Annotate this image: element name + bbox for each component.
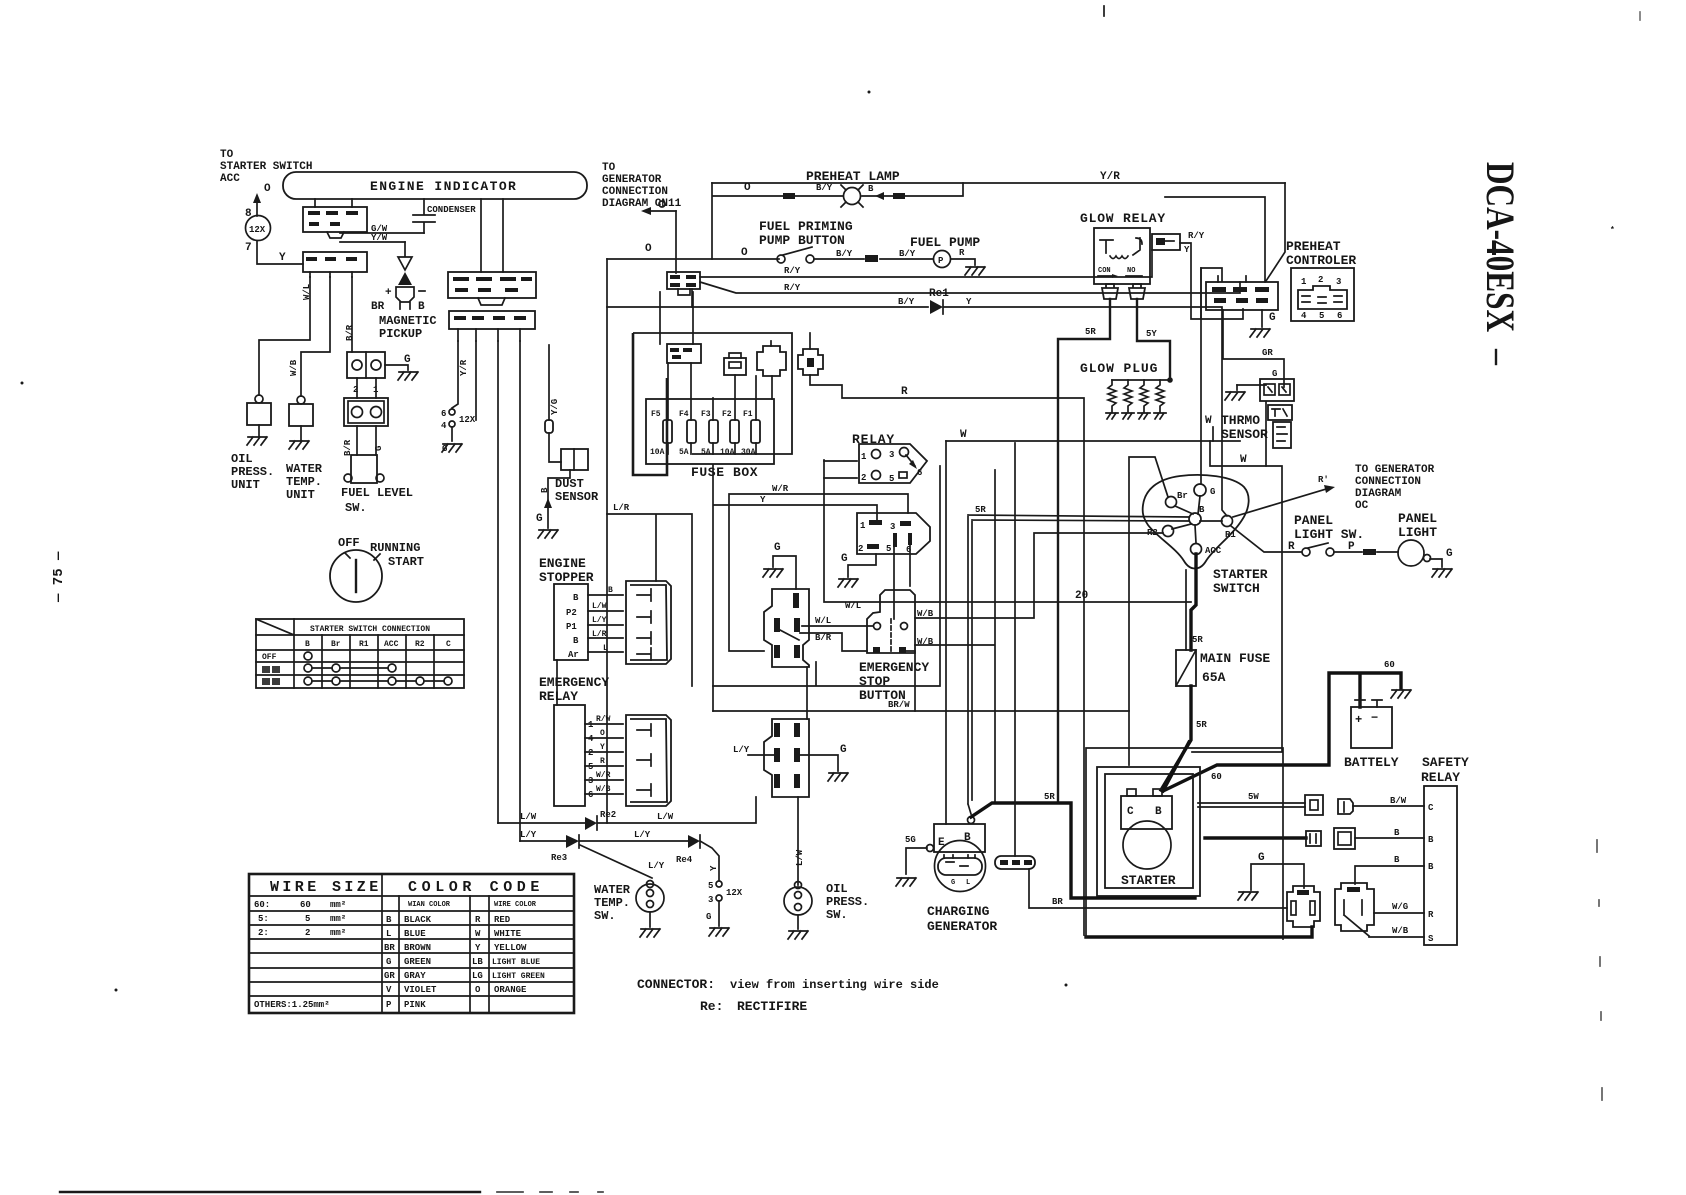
- svg-text:G: G: [1269, 312, 1276, 324]
- preheat controller U2: [1291, 268, 1354, 321]
- svg-text:R: R: [475, 915, 481, 925]
- svg-text:EMERGENCY: EMERGENCY: [539, 675, 609, 690]
- key switch OFF RUNNING START: [330, 536, 424, 602]
- svg-text:CONNECTOR:: CONNECTOR:: [637, 977, 715, 992]
- wires engine indicator to connector C: [481, 199, 503, 272]
- label FUEL LEVEL SW.: [341, 486, 413, 515]
- wire B/W to safety relay C: [1353, 796, 1424, 806]
- svg-text:5: 5: [1319, 311, 1324, 321]
- wire L/R into stopper area: [607, 503, 692, 686]
- wire left bus L/R vertical: [606, 259, 608, 823]
- doc code DCA-40ESX: [1478, 162, 1523, 364]
- wire to generator CN11 (arrow): [641, 201, 676, 273]
- wire long L/W branch: [497, 341, 499, 823]
- svg-text:W: W: [1205, 415, 1212, 427]
- svg-text:L/Y: L/Y: [520, 830, 537, 840]
- svg-text:LIGHT: LIGHT: [1398, 525, 1437, 540]
- svg-text:SWITCH: SWITCH: [1213, 581, 1260, 596]
- ground oil press unit: [247, 425, 267, 445]
- svg-text:LB: LB: [472, 957, 483, 967]
- wire L/Y Re3 Re4 run: [520, 830, 719, 880]
- svg-text:V: V: [386, 985, 392, 995]
- svg-text:P: P: [938, 256, 944, 266]
- svg-text:6: 6: [1337, 311, 1342, 321]
- wire R bus: [810, 375, 1084, 935]
- label FUEL PRIMING PUMP BUTTON: [759, 219, 853, 248]
- svg-text:G: G: [386, 957, 391, 967]
- svg-text:GREEN: GREEN: [404, 957, 431, 967]
- svg-text:BATTELY: BATTELY: [1344, 755, 1399, 770]
- svg-text:B: B: [573, 593, 579, 603]
- wire W right frame: [1192, 441, 1282, 752]
- label OIL PRESS. SW.: [826, 882, 869, 922]
- svg-text:W/B: W/B: [289, 359, 299, 376]
- svg-text:FUEL PUMP: FUEL PUMP: [910, 235, 980, 250]
- svg-text:STARTER SWITCH CONNECTION: STARTER SWITCH CONNECTION: [310, 625, 430, 634]
- wire W/B to water temp unit: [289, 277, 330, 396]
- label RELAY: [852, 432, 895, 447]
- svg-text:mm²: mm²: [330, 900, 346, 910]
- ground fuel level connector: [385, 354, 418, 380]
- svg-text:L/W: L/W: [657, 812, 674, 822]
- svg-text:PICKUP: PICKUP: [379, 327, 422, 341]
- condenser C1: [413, 199, 476, 233]
- glow plug R3: [1138, 380, 1150, 419]
- svg-text:G: G: [1446, 548, 1453, 560]
- label PREHEAT LAMP: [806, 169, 900, 184]
- svg-text:20: 20: [1075, 590, 1088, 602]
- svg-text:ACC: ACC: [220, 173, 240, 185]
- starter switch body: [1143, 475, 1249, 569]
- wire stopper to emergency relay: [556, 660, 558, 705]
- connector 3slot: [995, 443, 1035, 869]
- svg-text:SAFETY: SAFETY: [1422, 755, 1469, 770]
- wire 5W: [1198, 792, 1305, 807]
- svg-text:B: B: [1155, 806, 1162, 818]
- svg-text:5: 5: [708, 881, 713, 891]
- wire W/B: [1369, 926, 1424, 937]
- svg-text:PREHEAT: PREHEAT: [1286, 239, 1341, 254]
- svg-text:L: L: [966, 879, 970, 887]
- wire 5G ground: [896, 845, 934, 887]
- label THRMO SENSOR: [1205, 413, 1268, 442]
- glow plug R2: [1122, 380, 1134, 419]
- svg-text:Y: Y: [279, 252, 286, 264]
- wire P to panel light: [1334, 541, 1398, 555]
- wire 5R from glow relay: [1058, 299, 1110, 803]
- svg-text:R2: R2: [415, 640, 425, 649]
- svg-text:65A: 65A: [1202, 670, 1226, 685]
- svg-text:FUEL LEVEL: FUEL LEVEL: [341, 486, 413, 500]
- connector preheat (multi pin): [1206, 276, 1278, 310]
- svg-text:Re1: Re1: [929, 288, 949, 300]
- svg-text:5R: 5R: [1085, 327, 1096, 337]
- svg-text:5G: 5G: [905, 835, 916, 845]
- wire main fuse to starter 5R: [1161, 686, 1207, 790]
- wire BR: [1029, 869, 1287, 908]
- svg-text:Y: Y: [966, 297, 972, 307]
- svg-text:SW.: SW.: [345, 501, 367, 515]
- svg-text:60: 60: [1211, 772, 1222, 782]
- svg-text:G: G: [1210, 487, 1215, 497]
- battery wire 60 loop: [1163, 660, 1401, 791]
- svg-text:2:: 2:: [258, 928, 269, 938]
- svg-text:RECTIFIRE: RECTIFIRE: [737, 999, 807, 1014]
- wire main O bus: [607, 247, 779, 259]
- svg-text:W/L: W/L: [815, 616, 831, 626]
- fuel priming pump button S1: [777, 247, 814, 263]
- svg-text:OIL: OIL: [826, 882, 848, 896]
- svg-text:3: 3: [889, 450, 894, 460]
- svg-text:WHITE: WHITE: [494, 929, 522, 939]
- wire long L/Y branch: [519, 341, 521, 841]
- wire B to safety relay B: [1355, 828, 1424, 838]
- starter switch terminal R2: [1147, 526, 1174, 539]
- svg-text:B: B: [1199, 505, 1205, 515]
- page number 75: [51, 551, 67, 603]
- svg-text:2: 2: [588, 748, 593, 758]
- svg-text:LIGHT GREEN: LIGHT GREEN: [492, 972, 545, 981]
- svg-text:START: START: [388, 555, 424, 569]
- ground engine stopper top: [476, 341, 570, 538]
- svg-text:EMERGENCY: EMERGENCY: [859, 660, 929, 675]
- svg-text:1: 1: [861, 452, 867, 462]
- wire Y/W: [340, 233, 405, 243]
- wires fuel level to float: [343, 378, 384, 456]
- wire connector stack: [806, 667, 808, 719]
- svg-text:Y: Y: [1184, 245, 1190, 255]
- svg-text:OFF: OFF: [338, 536, 360, 550]
- svg-text:2: 2: [305, 928, 310, 938]
- svg-text:R/Y: R/Y: [784, 283, 801, 293]
- svg-text:R: R: [959, 248, 965, 258]
- connector B (engine indicator lower plug): [303, 252, 367, 277]
- wire W/L pair into B: [968, 505, 1189, 814]
- label FUSE BOX: [691, 465, 758, 480]
- svg-text:Y: Y: [760, 495, 766, 505]
- wire W/G: [1374, 902, 1424, 913]
- svg-text:G: G: [374, 446, 384, 451]
- svg-text:5: 5: [305, 914, 310, 924]
- svg-text:O: O: [600, 729, 605, 738]
- engine stopper connector: [626, 581, 671, 664]
- wires engine stopper: [588, 586, 623, 653]
- wires emergency relay: [585, 715, 623, 794]
- svg-text:L/R: L/R: [613, 503, 630, 513]
- svg-text:W/B: W/B: [917, 609, 934, 619]
- wire W thermo: [1212, 427, 1214, 441]
- svg-text:DUST: DUST: [555, 477, 584, 491]
- terminal 6-4 12X: [441, 409, 476, 441]
- wire pin5 down to stop button: [893, 547, 895, 619]
- svg-text:R: R: [1288, 541, 1295, 553]
- svg-text:P2: P2: [566, 608, 577, 618]
- svg-text:Br: Br: [1177, 491, 1188, 501]
- wire top right second run: [1165, 197, 1266, 466]
- svg-text:WIAN COLOR: WIAN COLOR: [408, 901, 451, 909]
- connector 6pin lower: [764, 719, 809, 797]
- ground lower connector: [800, 744, 848, 781]
- svg-text:W/G: W/G: [1392, 902, 1408, 912]
- svg-text:PRESS.: PRESS.: [231, 465, 274, 479]
- svg-text:5R: 5R: [1192, 635, 1203, 645]
- svg-text:ORANGE: ORANGE: [494, 985, 527, 995]
- emergency relay connector: [626, 715, 671, 806]
- svg-text:PUMP BUTTON: PUMP BUTTON: [759, 233, 845, 248]
- connector safety C1: [1305, 795, 1323, 815]
- wire frame left of starter switch: [1129, 457, 1168, 765]
- svg-text:60: 60: [300, 900, 311, 910]
- svg-text:B: B: [1394, 828, 1400, 838]
- svg-text:Y/W: Y/W: [371, 233, 388, 243]
- svg-text:STOP: STOP: [859, 674, 890, 689]
- svg-text:CONTROLER: CONTROLER: [1286, 253, 1356, 268]
- svg-text:G: G: [951, 879, 955, 887]
- svg-text:RELAY: RELAY: [1421, 770, 1460, 785]
- fuse box connector D: [798, 333, 823, 375]
- svg-text:W/R: W/R: [772, 484, 789, 494]
- svg-text:8: 8: [245, 208, 252, 220]
- svg-text:F3: F3: [701, 410, 711, 419]
- svg-text:Y: Y: [709, 865, 719, 871]
- svg-text:5: 5: [588, 762, 593, 772]
- label: TO STARTER SWITCH ACC: [220, 149, 312, 185]
- wire Y loop: [713, 441, 946, 824]
- svg-text:COLOR CODE: COLOR CODE: [408, 879, 544, 896]
- wire Y/R vertical: [452, 341, 469, 408]
- svg-text:LIGHT SW.: LIGHT SW.: [1294, 527, 1364, 542]
- svg-text:2: 2: [1318, 275, 1323, 285]
- svg-text:UNIT: UNIT: [231, 478, 260, 492]
- svg-text:B: B: [305, 640, 310, 649]
- water temp switch: [636, 881, 664, 928]
- svg-text:ACC: ACC: [384, 640, 399, 649]
- fuse box connector A: [660, 292, 701, 363]
- svg-text:R: R: [1428, 910, 1434, 920]
- svg-text:W/B: W/B: [596, 785, 611, 794]
- charging generator G1: [934, 817, 986, 892]
- fuse F4 5A: [679, 363, 696, 457]
- svg-text:B/Y: B/Y: [899, 249, 916, 259]
- fuel level float: [344, 455, 384, 483]
- label FUEL PUMP: [910, 235, 980, 250]
- svg-text:B/W: B/W: [1390, 796, 1407, 806]
- svg-text:F4: F4: [679, 410, 689, 419]
- svg-text:TEMP.: TEMP.: [594, 896, 630, 910]
- svg-text:BR: BR: [384, 943, 395, 953]
- svg-text:G: G: [536, 513, 543, 525]
- svg-text:5:: 5:: [258, 914, 269, 924]
- svg-text:W: W: [960, 429, 967, 441]
- svg-text:Y/R: Y/R: [1100, 171, 1120, 183]
- svg-text:O: O: [744, 182, 751, 194]
- glow plug bus: [1112, 379, 1170, 381]
- svg-text:2: 2: [858, 544, 863, 554]
- svg-text:CONNECTION: CONNECTION: [602, 186, 668, 198]
- svg-text:B: B: [386, 915, 392, 925]
- svg-text:G: G: [841, 553, 848, 565]
- svg-text:W: W: [1240, 454, 1247, 466]
- svg-text:BUTTON: BUTTON: [859, 688, 906, 703]
- dust sensor: [540, 449, 599, 504]
- svg-text:4: 4: [588, 734, 594, 744]
- svg-text:Y: Y: [600, 743, 605, 752]
- svg-text:5A: 5A: [679, 448, 689, 457]
- main fuse 65A: [1176, 650, 1270, 686]
- relay connector B (bottom): [1335, 883, 1374, 936]
- ground battery: [1391, 690, 1411, 698]
- svg-text:CONNECTION: CONNECTION: [1355, 476, 1421, 488]
- svg-text:TO: TO: [602, 162, 616, 174]
- svg-text:O: O: [475, 985, 481, 995]
- ground 5-3 cluster: [709, 928, 729, 936]
- glow plug R1: [1106, 380, 1118, 419]
- thermo sensor body: [1268, 405, 1292, 448]
- svg-text:4: 4: [441, 421, 447, 431]
- battery BT1: [1344, 700, 1399, 770]
- svg-text:B/Y: B/Y: [816, 183, 833, 193]
- starter switch terminal B: [1189, 505, 1205, 525]
- water temp unit: [289, 396, 313, 426]
- starter switch terminal ACC: [1191, 544, 1222, 557]
- svg-text:L/Y: L/Y: [634, 830, 651, 840]
- svg-text:mm²: mm²: [330, 928, 346, 938]
- fuel level sender SW: [344, 398, 388, 426]
- svg-text:C: C: [1428, 803, 1434, 813]
- svg-text:L: L: [603, 644, 608, 653]
- svg-text:F5: F5: [651, 410, 661, 419]
- svg-text:GRAY: GRAY: [404, 971, 426, 981]
- svg-text:C: C: [446, 640, 451, 649]
- svg-text:PANEL: PANEL: [1294, 513, 1333, 528]
- ground fuel pump: [965, 267, 985, 275]
- svg-text:1: 1: [588, 720, 594, 730]
- svg-text:BR: BR: [371, 301, 385, 313]
- svg-text:R: R: [901, 386, 908, 398]
- svg-text:5R: 5R: [975, 505, 986, 515]
- wire W/L to button: [802, 616, 873, 626]
- svg-text:G: G: [1272, 369, 1277, 379]
- svg-text:BROWN: BROWN: [404, 943, 431, 953]
- magnetic pickup MP1: [371, 242, 425, 313]
- svg-text:RUNNING: RUNNING: [370, 541, 420, 555]
- starter switch connection table: [256, 619, 464, 688]
- svg-text:12X: 12X: [726, 888, 743, 898]
- svg-text:B/R: B/R: [345, 324, 355, 341]
- connector safety C2: [1338, 799, 1353, 814]
- svg-text:WATER: WATER: [286, 462, 323, 476]
- svg-text:GENERATOR: GENERATOR: [927, 919, 997, 934]
- svg-text:Re2: Re2: [600, 810, 616, 820]
- svg-text:L/Y: L/Y: [733, 745, 750, 755]
- svg-text:60: 60: [1384, 660, 1395, 670]
- svg-text:1: 1: [1301, 277, 1307, 287]
- label CHARGING GENERATOR: [927, 904, 997, 934]
- wire Y/G to dust sensor: [545, 345, 561, 462]
- svg-text:L: L: [386, 929, 391, 939]
- svg-text:+: +: [1355, 713, 1362, 727]
- svg-text:GR: GR: [1262, 348, 1273, 358]
- wire ACC to main fuse 5R: [1186, 554, 1203, 650]
- svg-text:W/B: W/B: [917, 637, 934, 647]
- rectifier Re2: [585, 810, 616, 830]
- svg-text:12X: 12X: [459, 415, 476, 425]
- svg-text:5: 5: [889, 474, 894, 484]
- ground panel light: [1432, 569, 1452, 577]
- svg-text:5R: 5R: [1196, 720, 1207, 730]
- svg-text:SENSOR: SENSOR: [555, 490, 599, 504]
- svg-text:GENERATOR: GENERATOR: [602, 174, 662, 186]
- starter M2: [1121, 789, 1176, 888]
- svg-text:WATER: WATER: [594, 883, 631, 897]
- label PREHEAT CONTROLER: [1286, 239, 1356, 268]
- engine indicator U1: [283, 172, 587, 199]
- connector 12X terminal: [245, 208, 271, 254]
- note CONNECTOR: [637, 977, 939, 992]
- ground G hexagon pin2: [838, 553, 876, 587]
- label TO GENERATOR CONNECTION DIAGRAM OC: [1355, 464, 1435, 512]
- svg-text:CHARGING: CHARGING: [927, 904, 990, 919]
- svg-text:G: G: [706, 912, 711, 922]
- svg-text:G: G: [1258, 852, 1265, 864]
- label OIL PRESS. UNIT: [231, 452, 274, 492]
- connector fuel level upper: [347, 352, 385, 395]
- rectifier Re3: [551, 835, 579, 863]
- svg-text:10A: 10A: [720, 448, 735, 457]
- wire G/W: [340, 224, 424, 234]
- svg-text:— 75 —: — 75 —: [51, 551, 67, 603]
- svg-text:5W: 5W: [1248, 792, 1259, 802]
- rectifier Re4: [676, 835, 700, 865]
- wire W/R loop: [729, 484, 908, 651]
- glow plug R4: [1154, 380, 1166, 419]
- fuse F5 10A: [650, 363, 672, 457]
- svg-text:Re3: Re3: [551, 853, 567, 863]
- svg-text:F1: F1: [743, 410, 753, 419]
- wire 20: [824, 460, 1191, 803]
- svg-text:YELLOW: YELLOW: [494, 943, 527, 953]
- svg-text:5R: 5R: [1044, 792, 1055, 802]
- svg-text:W/B: W/B: [1392, 926, 1409, 936]
- svg-text:B/Y: B/Y: [898, 297, 915, 307]
- fuse box outer frame: [633, 333, 792, 475]
- svg-text:Y/G: Y/G: [550, 399, 560, 415]
- connector glow relay aux: [1152, 231, 1243, 319]
- svg-text:CON: CON: [1098, 267, 1111, 275]
- svg-text:W: W: [475, 929, 481, 939]
- label WATER TEMP. SW.: [594, 883, 631, 923]
- svg-text:DCA-40ESX: DCA-40ESX: [1478, 162, 1523, 332]
- connector safety C3: [1306, 831, 1321, 846]
- svg-text:B: B: [1428, 835, 1434, 845]
- svg-text:Re:: Re:: [700, 999, 723, 1014]
- svg-text:BLUE: BLUE: [404, 929, 426, 939]
- svg-text:RELAY: RELAY: [539, 689, 578, 704]
- label MAGNETIC PICKUP: [379, 314, 437, 341]
- connector CN (4 pin, fuel circuit): [667, 272, 700, 307]
- svg-text:W/L: W/L: [302, 284, 312, 300]
- svg-text:G: G: [774, 542, 781, 554]
- svg-text:GLOW RELAY: GLOW RELAY: [1080, 211, 1166, 226]
- wire L/Y into lower connector: [733, 745, 774, 755]
- svg-text:L/W: L/W: [795, 849, 805, 866]
- ground 6-4 terminal: [442, 444, 462, 454]
- connector hexagonal (relay plug): [857, 513, 930, 555]
- svg-text:G: G: [840, 744, 847, 756]
- svg-text:R1: R1: [359, 640, 369, 649]
- fuel pump M1: [934, 248, 976, 268]
- svg-text:SW.: SW.: [826, 908, 848, 922]
